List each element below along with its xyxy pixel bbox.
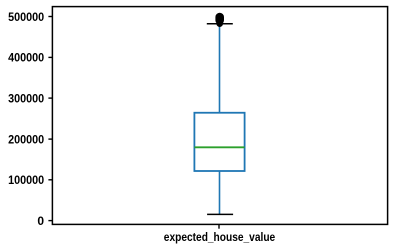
svg-text:200000: 200000 [8,132,44,146]
svg-text:300000: 300000 [8,91,44,105]
svg-text:expected_house_value: expected_house_value [164,230,276,244]
svg-text:400000: 400000 [8,51,44,65]
y tick 400000 [48,56,53,58]
upper whisker [219,24,221,113]
lower cap [207,213,233,215]
upper cap [207,23,233,25]
y tick 0 [48,220,53,222]
svg-text:500000: 500000 [8,10,44,24]
box (Q1-Q3) [194,113,244,171]
y tick 200000 [48,138,53,140]
y tick 100000 [48,179,53,181]
svg-text:0: 0 [37,214,44,228]
svg-text:100000: 100000 [8,173,44,187]
fliers (outlier cluster) [215,13,224,25]
y tick 300000 [48,97,53,99]
x tick [218,224,220,229]
axes frame [52,7,387,225]
flier bottom nub [216,20,223,27]
lower whisker [219,171,221,214]
median line [194,146,244,148]
y tick 500000 [48,16,53,18]
